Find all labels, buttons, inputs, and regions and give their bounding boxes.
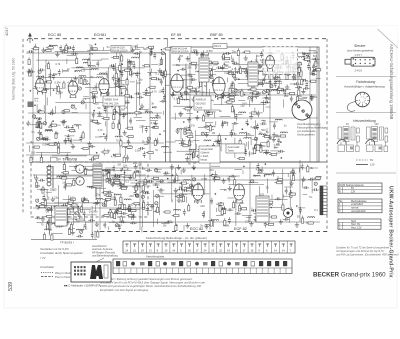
capacitor bbox=[127, 96, 134, 99]
resistor bbox=[277, 72, 282, 74]
junction bbox=[211, 174, 213, 176]
capacitor bbox=[133, 62, 136, 69]
wire bbox=[63, 70, 69, 72]
capacitor bbox=[69, 138, 72, 145]
svg-text:Heiz. 12V: Heiz. 12V bbox=[351, 227, 362, 230]
tube ECH81 bbox=[98, 79, 109, 97]
junction bbox=[30, 90, 32, 92]
wire bbox=[205, 122, 213, 124]
wire bbox=[206, 65, 208, 93]
page corner fold bbox=[378, 26, 397, 45]
junction bbox=[172, 174, 174, 176]
resistor bbox=[104, 201, 106, 206]
wire bbox=[57, 185, 59, 214]
ground bbox=[66, 219, 70, 224]
wire bbox=[298, 168, 300, 173]
wire bbox=[139, 54, 141, 58]
svg-text:5n: 5n bbox=[260, 79, 263, 83]
wire bbox=[85, 103, 87, 109]
voltage table bbox=[338, 183, 382, 193]
ground bbox=[195, 50, 199, 55]
wire bbox=[175, 140, 186, 142]
ground bbox=[285, 209, 289, 214]
wire bbox=[83, 96, 89, 98]
wire bbox=[122, 209, 132, 211]
wire bbox=[297, 63, 299, 86]
capacitor bbox=[113, 174, 120, 177]
resistor bbox=[251, 88, 256, 90]
svg-text:2n: 2n bbox=[268, 89, 271, 93]
trimmer bbox=[38, 70, 41, 73]
heater legend bbox=[356, 158, 375, 167]
wire bbox=[256, 64, 267, 66]
resistor bbox=[291, 209, 293, 214]
capacitor bbox=[134, 170, 141, 173]
wire bbox=[56, 212, 60, 214]
resistor bbox=[36, 182, 38, 187]
wire bbox=[263, 100, 265, 112]
resistor bbox=[120, 87, 125, 89]
wire bbox=[102, 173, 104, 193]
capacitor bbox=[64, 138, 67, 145]
wire af second bus bbox=[60, 175, 240, 177]
resistor bbox=[113, 115, 115, 120]
trimmer bbox=[115, 210, 118, 213]
wire bbox=[127, 59, 129, 130]
capacitor bbox=[122, 112, 125, 119]
capacitor bbox=[180, 68, 187, 71]
wire bbox=[271, 150, 280, 152]
capacitor bbox=[93, 202, 100, 205]
wire bbox=[136, 44, 138, 49]
resistor bbox=[115, 181, 120, 183]
capacitor bbox=[134, 190, 137, 197]
resistor bbox=[34, 146, 39, 148]
svg-text:70: 70 bbox=[89, 43, 92, 47]
svg-text:941/4: 941/4 bbox=[214, 44, 221, 48]
junction bbox=[109, 209, 111, 211]
svg-text:GE/2410: GE/2410 bbox=[196, 102, 207, 106]
wire bbox=[178, 78, 180, 86]
resistor bbox=[111, 212, 113, 217]
junction bbox=[124, 172, 126, 174]
wire bbox=[282, 194, 284, 198]
capacitor bbox=[283, 218, 290, 221]
resistor bbox=[63, 172, 68, 174]
junction bbox=[96, 152, 98, 154]
coil bbox=[83, 62, 90, 63]
wire bbox=[49, 74, 57, 76]
resistor bbox=[225, 58, 230, 60]
resistor bbox=[72, 206, 77, 208]
svg-text:10k: 10k bbox=[205, 53, 210, 57]
junction bbox=[49, 45, 51, 47]
heater connection table bbox=[338, 219, 381, 229]
wire bbox=[242, 102, 247, 104]
svg-text:0,5M: 0,5M bbox=[201, 177, 208, 181]
wire bbox=[59, 223, 66, 225]
svg-text:5n: 5n bbox=[155, 148, 158, 152]
resistor bbox=[210, 221, 212, 226]
capacitor bbox=[210, 198, 213, 205]
resistor bbox=[212, 80, 214, 85]
junction bbox=[93, 110, 95, 112]
wire bbox=[283, 99, 285, 107]
capacitor bbox=[64, 126, 71, 129]
svg-text:100: 100 bbox=[121, 183, 126, 187]
wire riser h bbox=[269, 47, 271, 140]
resistor bbox=[44, 200, 46, 205]
ground bbox=[61, 120, 65, 125]
resistor bbox=[51, 235, 53, 240]
sidebar footnote bbox=[336, 246, 399, 257]
note Umruester bbox=[40, 247, 83, 260]
wire bbox=[69, 165, 95, 167]
svg-text:1 3 5 7: 1 3 5 7 bbox=[355, 54, 363, 57]
capacitor bbox=[162, 87, 165, 94]
wire bbox=[216, 214, 223, 216]
svg-text:27k: 27k bbox=[39, 121, 44, 125]
capacitor bbox=[281, 62, 288, 65]
junction bbox=[139, 108, 141, 110]
wire bbox=[310, 95, 315, 97]
capacitor bbox=[302, 186, 309, 189]
part label box 4 bbox=[194, 96, 211, 110]
tube ECC82 bbox=[192, 184, 204, 203]
capacitor bbox=[301, 79, 308, 82]
wire bbox=[290, 171, 292, 174]
junction bbox=[153, 126, 155, 128]
resistor bbox=[46, 49, 51, 51]
wire bbox=[48, 230, 50, 236]
wire bbox=[167, 181, 176, 183]
resistor bbox=[265, 201, 267, 206]
junction bbox=[135, 180, 137, 182]
wire bbox=[311, 178, 313, 194]
wire bbox=[259, 198, 261, 206]
capacitor bbox=[51, 109, 54, 116]
capacitor bbox=[46, 165, 53, 168]
capacitor bbox=[221, 122, 224, 129]
wire bbox=[91, 59, 102, 61]
detector dashed box bbox=[263, 47, 298, 75]
wire bbox=[195, 66, 197, 69]
resistor bbox=[120, 197, 122, 202]
wire bbox=[160, 73, 171, 75]
wire bbox=[198, 68, 200, 89]
capacitor bbox=[76, 178, 83, 181]
capacitor bbox=[228, 217, 231, 224]
wire bbox=[299, 97, 307, 99]
coil bbox=[150, 118, 157, 119]
resistor bbox=[239, 141, 241, 146]
svg-text:27k: 27k bbox=[191, 124, 196, 128]
junction bbox=[100, 92, 102, 94]
resistor bbox=[133, 173, 135, 178]
resistor bbox=[224, 220, 226, 225]
wire bbox=[95, 83, 97, 91]
ground bbox=[202, 62, 206, 67]
svg-text:25p: 25p bbox=[176, 63, 181, 67]
capacitor bbox=[107, 191, 114, 194]
resistor bbox=[29, 71, 31, 76]
junction bbox=[294, 83, 296, 85]
svg-text:mit Spannungen und Ströme bei: mit Spannungen und Ströme bei Ug=4,5V bbox=[336, 249, 384, 253]
resistor bbox=[233, 203, 235, 208]
wire bbox=[156, 180, 164, 182]
trimmer bbox=[258, 170, 261, 173]
capacitor bbox=[146, 206, 149, 213]
trimmer bbox=[161, 52, 164, 55]
junction bbox=[118, 78, 120, 80]
ground bbox=[95, 200, 99, 205]
wire bbox=[89, 146, 91, 155]
resistor bbox=[183, 145, 188, 147]
capacitor bbox=[35, 125, 42, 128]
ground bbox=[220, 65, 224, 70]
capacitor bbox=[257, 163, 260, 170]
resistor bbox=[293, 66, 298, 68]
capacitor bbox=[247, 61, 254, 64]
ground bbox=[34, 84, 38, 89]
capacitor bbox=[295, 86, 302, 89]
wire bbox=[137, 46, 144, 48]
capacitor bbox=[263, 76, 266, 83]
wire bbox=[66, 59, 68, 64]
capacitor bbox=[47, 219, 50, 226]
sidebar divider 2 bbox=[336, 111, 396, 113]
wire bbox=[261, 167, 263, 173]
wire bbox=[232, 124, 234, 130]
wire bbox=[134, 186, 141, 188]
wire bbox=[190, 75, 192, 84]
svg-text:4,7k: 4,7k bbox=[111, 154, 117, 158]
ground bbox=[195, 199, 199, 204]
junction bbox=[217, 98, 219, 100]
trimmer bbox=[107, 169, 110, 172]
junction bbox=[93, 165, 95, 167]
capacitor bbox=[312, 69, 319, 72]
capacitor bbox=[243, 147, 246, 154]
wire bbox=[234, 110, 236, 119]
ground bbox=[233, 76, 237, 81]
wire bbox=[175, 85, 177, 90]
svg-text:100: 100 bbox=[124, 106, 129, 110]
resistor bbox=[290, 193, 295, 195]
junction bbox=[167, 178, 169, 180]
ground bbox=[179, 112, 183, 117]
resistor bbox=[108, 178, 110, 183]
resistor bbox=[134, 203, 139, 205]
wire bbox=[215, 171, 217, 178]
wire bbox=[182, 193, 188, 195]
junction bbox=[193, 168, 195, 170]
wire bbox=[30, 124, 39, 126]
svg-text:von Außenseite: von Außenseite bbox=[297, 129, 316, 133]
trimmer bbox=[137, 183, 140, 186]
wire bbox=[181, 74, 192, 76]
wire bbox=[270, 199, 288, 201]
ground bbox=[65, 214, 69, 219]
wire bbox=[142, 191, 144, 227]
note Anschluss automatische Antenne bbox=[92, 244, 118, 258]
wire bbox=[119, 83, 121, 135]
resistor bbox=[205, 107, 207, 112]
resistor bbox=[40, 123, 42, 128]
wire bbox=[208, 74, 216, 76]
Stecker caption bbox=[347, 44, 373, 53]
wire bbox=[185, 70, 187, 100]
svg-text:0,5M: 0,5M bbox=[131, 44, 138, 48]
wire bbox=[78, 79, 80, 84]
resistor bbox=[113, 110, 115, 115]
svg-text:4,7k: 4,7k bbox=[55, 62, 61, 66]
capacitor bbox=[92, 112, 95, 119]
svg-text:100: 100 bbox=[284, 94, 289, 98]
capacitor bbox=[101, 169, 108, 172]
Stecker connector bbox=[351, 57, 375, 66]
resistor bbox=[113, 49, 118, 51]
wire bbox=[138, 53, 140, 105]
resistor bbox=[223, 55, 225, 60]
trimmer bbox=[71, 105, 74, 108]
capacitor bbox=[145, 126, 148, 133]
capacitor bbox=[177, 188, 184, 191]
wire bbox=[206, 65, 208, 98]
capacitor bbox=[117, 101, 120, 108]
wire bbox=[192, 154, 194, 159]
capacitor bbox=[292, 74, 295, 81]
sidebar divider 1 bbox=[336, 76, 396, 78]
junction bbox=[292, 52, 294, 54]
svg-text:2n: 2n bbox=[163, 129, 166, 133]
svg-text:2n: 2n bbox=[179, 185, 182, 189]
trimmer bbox=[155, 202, 158, 205]
svg-text:10k: 10k bbox=[90, 118, 95, 122]
wire bbox=[114, 98, 116, 102]
wire bbox=[116, 224, 122, 226]
junction bbox=[103, 133, 105, 135]
svg-text:8p: 8p bbox=[105, 199, 108, 203]
coil bbox=[275, 119, 282, 120]
capacitor bbox=[35, 217, 42, 220]
ground bbox=[254, 217, 258, 222]
wire bbox=[278, 70, 280, 93]
wire bbox=[42, 202, 70, 204]
wire bbox=[124, 167, 126, 185]
resistor bbox=[46, 81, 51, 83]
wire bbox=[165, 84, 170, 86]
coil bbox=[182, 99, 189, 100]
IF chassis box bbox=[170, 47, 319, 162]
resistor bbox=[145, 93, 150, 95]
ground bbox=[177, 198, 181, 203]
wire bbox=[63, 51, 90, 53]
svg-text:4,7k: 4,7k bbox=[256, 168, 262, 172]
capacitor bbox=[293, 74, 296, 81]
junction bbox=[177, 70, 179, 72]
coil bbox=[57, 176, 64, 177]
wire af bus bbox=[100, 179, 320, 181]
resistor bbox=[149, 46, 154, 48]
resistor bbox=[40, 157, 42, 162]
capacitor bbox=[34, 44, 37, 51]
wire bbox=[288, 71, 298, 73]
resistor bbox=[253, 92, 258, 94]
capacitor bbox=[91, 232, 94, 239]
svg-text:10k: 10k bbox=[265, 149, 270, 153]
ground bbox=[258, 143, 262, 148]
resistor bbox=[210, 71, 212, 76]
wire bbox=[50, 156, 52, 162]
resistor bbox=[116, 183, 121, 185]
svg-text:539: 539 bbox=[8, 282, 14, 291]
wire bbox=[81, 69, 92, 71]
capacitor bbox=[268, 52, 275, 55]
wire bbox=[36, 59, 77, 61]
capacitor bbox=[64, 184, 67, 191]
resistor bbox=[143, 202, 145, 207]
ground bbox=[221, 178, 225, 183]
wire bbox=[123, 177, 132, 179]
resistor bbox=[237, 51, 239, 56]
wire bbox=[76, 220, 86, 222]
wire bbox=[199, 92, 261, 94]
ground bbox=[177, 165, 181, 170]
wire bbox=[55, 106, 57, 114]
wire bbox=[59, 91, 61, 99]
resistor bbox=[209, 126, 211, 131]
svg-text:4,7k: 4,7k bbox=[232, 67, 238, 71]
capacitor bbox=[313, 58, 320, 61]
pointer wire bbox=[78, 258, 104, 262]
coil bbox=[303, 53, 310, 54]
capacitor bbox=[159, 71, 166, 74]
resistor bbox=[229, 72, 234, 74]
trimmer bbox=[32, 115, 35, 118]
resistor bbox=[177, 195, 182, 197]
capacitor bbox=[134, 92, 141, 95]
wire bbox=[256, 55, 258, 72]
wire af top bus bbox=[105, 167, 318, 169]
svg-text:10k: 10k bbox=[123, 164, 128, 168]
resistor bbox=[126, 90, 128, 95]
ground bbox=[268, 135, 272, 140]
resistor bbox=[293, 67, 295, 72]
wire bbox=[143, 126, 150, 128]
capacitor bbox=[154, 78, 161, 81]
resistor bbox=[34, 48, 39, 50]
wire riser f bbox=[189, 47, 191, 162]
wire IF agc bus bbox=[171, 117, 318, 119]
wire bbox=[103, 47, 105, 50]
trimmer bbox=[62, 111, 65, 114]
capacitor bbox=[275, 197, 282, 200]
coil bbox=[37, 76, 44, 77]
resistor bbox=[218, 136, 220, 141]
wire bbox=[45, 65, 47, 125]
coil bbox=[183, 180, 190, 181]
capacitor bbox=[91, 168, 98, 171]
resistor bbox=[119, 65, 121, 70]
resistor bbox=[135, 185, 137, 190]
capacitor bbox=[260, 122, 267, 125]
resistor bbox=[83, 147, 88, 149]
capacitor bbox=[235, 114, 238, 121]
svg-text:4017: 4017 bbox=[4, 26, 9, 36]
resistor bbox=[223, 209, 225, 214]
ground bbox=[128, 175, 132, 180]
